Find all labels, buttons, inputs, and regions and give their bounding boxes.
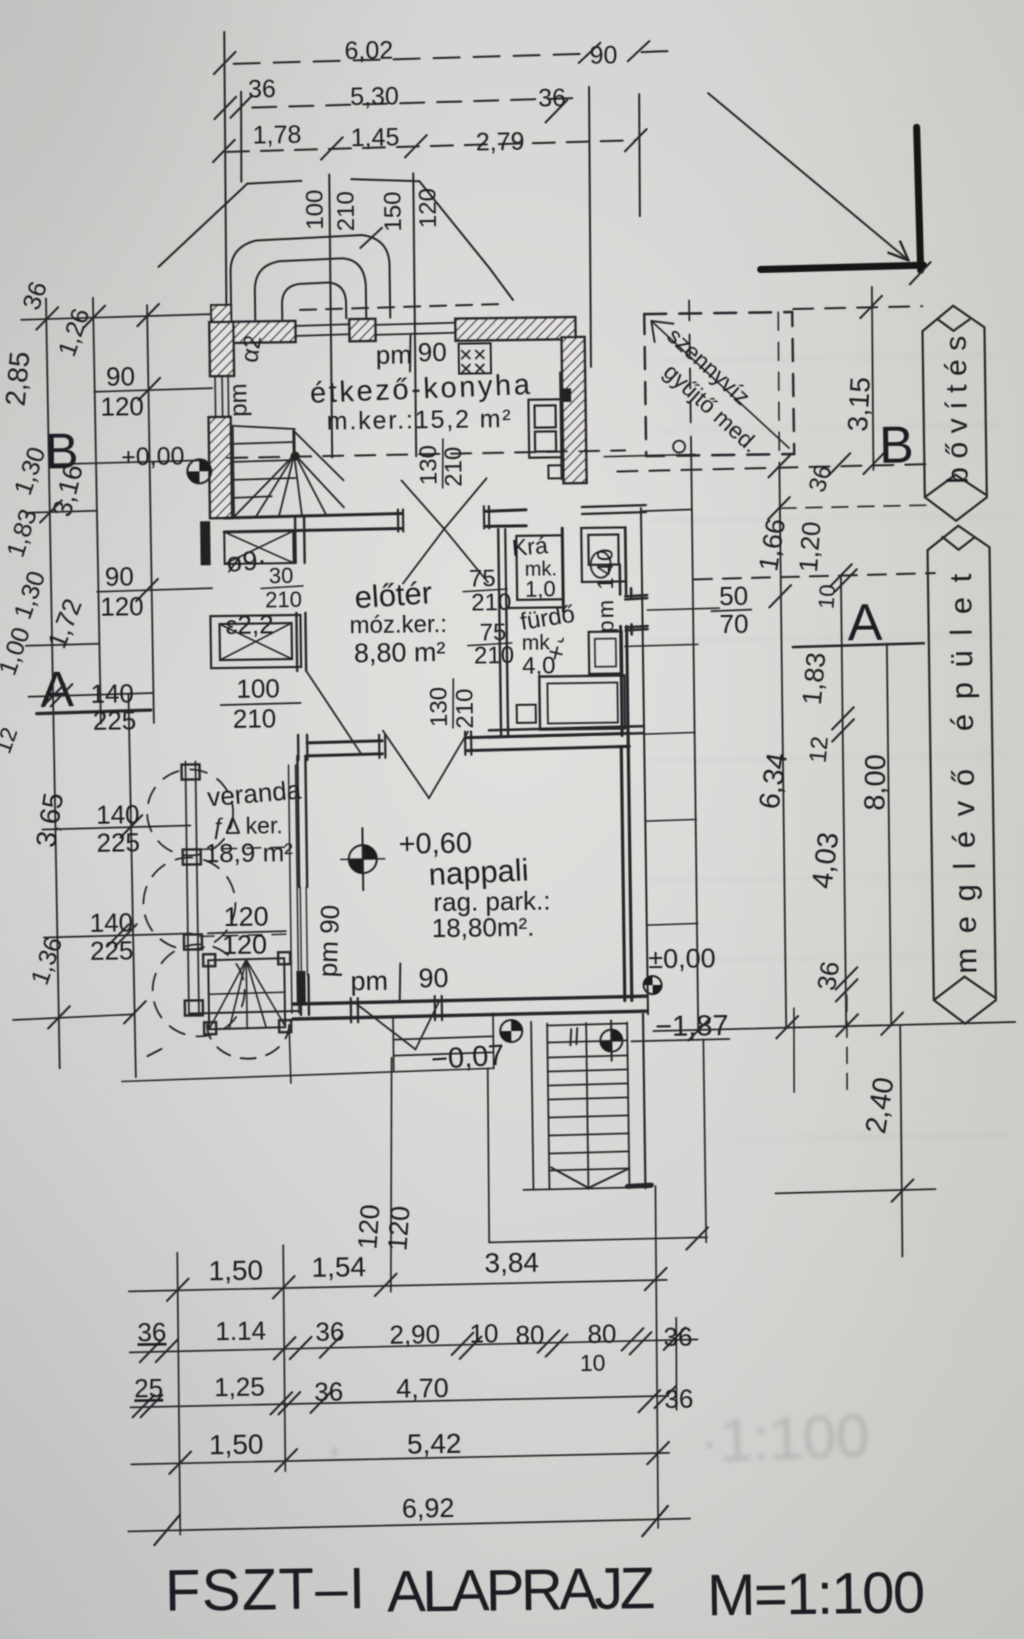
top right corner tick <box>910 262 931 284</box>
veranda-eloter wall lower stub <box>298 735 307 760</box>
svg-text:130: 130 <box>415 445 443 485</box>
bay dashed connector above wall <box>300 304 498 310</box>
veranda bottom edge <box>189 1011 299 1014</box>
wall kitchen east hatched strip <box>562 337 587 483</box>
top dim chain vertical extension line left <box>222 32 228 354</box>
bottom dim vertical x378 <box>388 1058 395 1292</box>
svg-text:α2: α2 <box>236 333 267 364</box>
kitchen-eloter door swing X upper <box>402 478 488 529</box>
section A left underline <box>37 710 151 714</box>
bottom dim vertical x668 <box>675 1318 677 1410</box>
right dim row y1196 tick <box>891 1179 913 1201</box>
svg-text:70: 70 <box>719 609 748 639</box>
terrace steps below nappali <box>393 1013 494 1071</box>
svg-text:1,20: 1,20 <box>793 520 827 573</box>
right dim vertical x783 <box>778 466 787 1027</box>
furdo east wall lower <box>621 626 629 735</box>
house east outer wall <box>641 508 648 1014</box>
kamra closet box <box>505 528 563 612</box>
lower connector horizontal <box>489 1237 707 1242</box>
svg-text:pm: pm <box>225 383 252 417</box>
bay window outer chamfer left diagonal <box>157 184 248 267</box>
top right diagonal arrowhead <box>888 241 908 260</box>
svg-text:1.14: 1.14 <box>215 1315 266 1346</box>
furdo wc box <box>589 631 623 673</box>
wall kitchen north-west corner tab <box>211 305 231 323</box>
below -1,87 connector horizontal <box>631 1039 729 1041</box>
svg-text:90: 90 <box>105 561 134 591</box>
furdo south wall connector to dim line <box>644 732 695 734</box>
left dim vertical v1 <box>46 298 60 1068</box>
top dim row 90 tick left <box>578 43 600 63</box>
bay window outer chamfer right diagonal <box>419 180 513 301</box>
svg-text:36: 36 <box>664 1384 693 1414</box>
svg-text:36: 36 <box>314 1376 343 1406</box>
right dim vertical x695 <box>690 456 699 1029</box>
svg-text:1,83: 1,83 <box>797 651 832 706</box>
svg-text:ALAPRAJZ: ALAPRAJZ <box>387 1556 656 1625</box>
right dim row y580 ticks <box>768 496 858 607</box>
right dim dashed vertical x843 low <box>846 995 848 1091</box>
nappali south door swing V <box>357 1002 440 1050</box>
left dim row y929 <box>44 933 192 937</box>
wall kitchen north-east hatched block <box>455 317 575 341</box>
right dim row y580 dashed <box>694 573 935 579</box>
right dashed row y311 <box>793 306 922 309</box>
svg-text:±0,00: ±0,00 <box>648 943 716 974</box>
svg-text:5,42: 5,42 <box>407 1428 462 1460</box>
right dim row y470 dashed <box>617 464 930 471</box>
kitchen stove box with x marks <box>459 343 491 373</box>
left dim row y384 tick <box>138 378 160 400</box>
svg-text:mk.: mk. <box>525 558 558 580</box>
left dim row y1004 <box>13 1014 134 1020</box>
svg-text:120: 120 <box>100 591 144 622</box>
svg-text:ø9·: ø9· <box>225 545 268 578</box>
svg-text:80: 80 <box>515 1320 544 1350</box>
level marker SE wall <box>643 976 661 994</box>
west wall dark post <box>200 521 211 565</box>
septic small circle <box>673 441 685 453</box>
left dim vertical v2 <box>93 298 101 724</box>
kitchen north window 2 sill lines <box>375 323 455 335</box>
stairs bottom thick end <box>627 1185 651 1186</box>
svg-text:50: 50 <box>719 581 748 611</box>
top dim row 90 tick right <box>627 41 649 61</box>
house east outer wall top connector <box>582 505 646 514</box>
svg-text:‚: ‚ <box>330 1417 339 1461</box>
svg-text:3,15: 3,15 <box>842 376 876 432</box>
winder stair boundary <box>233 425 296 517</box>
veranda outside dashed arc <box>207 1023 289 1059</box>
right dim vertical x888 <box>886 644 892 1026</box>
top dim row 5,30 ticks <box>214 97 236 119</box>
bottom dim row1 ticks <box>167 1268 667 1301</box>
left dim row y311 ticks <box>36 304 159 330</box>
left level marker <box>187 459 211 483</box>
left dim row y456 <box>49 460 205 464</box>
left dim row y384 <box>94 388 212 392</box>
right row y311 tick <box>860 296 882 318</box>
svg-text:1,50: 1,50 <box>208 1255 263 1287</box>
right dim vertical x878 (3,15) <box>871 287 875 470</box>
bay window outer ring <box>230 235 390 320</box>
svg-text:210: 210 <box>451 688 479 728</box>
kitchen flue dark square <box>560 388 571 402</box>
kitchen label pm 90 divider <box>410 335 412 371</box>
svg-text:90: 90 <box>106 361 135 391</box>
top dim row 1,78 ticks <box>213 140 235 162</box>
svg-text:225: 225 <box>93 705 137 736</box>
svg-text:10: 10 <box>580 1350 606 1376</box>
svg-text:A: A <box>40 661 75 717</box>
svg-text:1,25: 1,25 <box>214 1372 265 1403</box>
faint texture lines right side <box>650 355 1010 1140</box>
veranda window arc dashed 1 <box>147 769 234 856</box>
bay dim vertical line 2 <box>412 173 417 456</box>
svg-text:30: 30 <box>269 563 294 588</box>
top right thick corner horizontal <box>761 265 924 269</box>
svg-text:ƒΔ ker.: ƒΔ ker. <box>212 812 283 839</box>
left dim vertical v4 <box>128 693 135 1077</box>
level marker terrace left <box>500 1020 522 1042</box>
eloter-nappali wall east part <box>467 733 629 750</box>
winder stair radiating treads <box>233 430 344 517</box>
right dim vertical x896 (2,40) <box>899 1026 903 1257</box>
left dim row y584 tick <box>136 579 158 601</box>
furdo east door jambs <box>625 588 648 634</box>
left dim row y637 <box>26 644 99 646</box>
top dim chain vertical right 2 <box>638 94 641 216</box>
svg-text:120: 120 <box>352 1203 385 1250</box>
veranda window arc dashed 3 <box>152 944 245 1037</box>
septic tank dashed box <box>644 312 794 456</box>
wall kitchen north-west hatched block <box>211 321 295 343</box>
svg-text:+0,00: +0,00 <box>121 443 185 472</box>
svg-text:10: 10 <box>469 1318 498 1348</box>
top dim row 5,30 line <box>252 98 580 108</box>
svg-text:1,78: 1,78 <box>253 121 302 150</box>
right house-dim connector y512 <box>642 509 692 511</box>
right short connectors y822 y926 <box>646 819 697 925</box>
bottom dim row3 y1399 <box>130 1396 668 1408</box>
top right diagonal arrow <box>708 90 908 263</box>
right dim row y1196 <box>775 1189 935 1193</box>
right dim row y1031 <box>653 1022 1015 1031</box>
right dim vertical x790 low <box>793 1008 795 1092</box>
left dim row y821 tick <box>120 815 142 837</box>
svg-text:120: 120 <box>100 391 144 422</box>
right connector y646 <box>625 644 698 646</box>
bottom dim row1 y1284 <box>129 1280 667 1292</box>
winder stair treads horizontal <box>233 442 296 498</box>
svg-text:36: 36 <box>248 75 276 103</box>
svg-text:M=1:100: M=1:100 <box>707 1560 926 1628</box>
bay dim vertical line 1 <box>328 174 333 457</box>
wall west lower hatched strip <box>209 417 232 518</box>
right dim row y470 ticks <box>768 452 885 478</box>
top dim row 1,78 line <box>227 140 636 152</box>
wall west window sill upper <box>215 376 229 418</box>
svg-text:36: 36 <box>315 1316 344 1346</box>
svg-text:8,80 m²: 8,80 m² <box>354 637 446 668</box>
svg-text:pm: pm <box>350 966 388 997</box>
svg-text:18,9 m²: 18,9 m² <box>205 837 294 868</box>
furdo south wall <box>489 726 644 737</box>
right dim double ticks x843 y730 <box>832 707 854 741</box>
svg-text:1,45: 1,45 <box>351 124 400 153</box>
kitchen door axis divider <box>442 439 444 488</box>
left dim row y311 <box>21 314 211 320</box>
winder stair newel post <box>292 431 295 458</box>
left dim vertical v3 <box>147 305 154 723</box>
top dim chain vertical right 1 <box>587 87 593 367</box>
right dim double ticks x843 y960 <box>835 967 857 1001</box>
bovites arrow box <box>922 305 987 521</box>
svg-text:5,30: 5,30 <box>350 83 399 112</box>
svg-text:225: 225 <box>90 935 134 966</box>
thin connector to septic box <box>604 454 695 456</box>
svg-text:80: 80 <box>587 1319 616 1349</box>
nappali west window gap sills <box>300 887 307 975</box>
svg-text:pm 90: pm 90 <box>312 904 345 977</box>
nappali west wall <box>297 756 307 887</box>
top dim row 36 tick right pair <box>545 100 567 122</box>
top dim row 6,02 line <box>234 51 680 64</box>
veranda south steps fan box <box>208 958 285 1029</box>
eloter closet lower with X <box>210 615 301 668</box>
svg-text:120: 120 <box>382 1205 415 1252</box>
bottom dim row2 y1344 <box>130 1339 698 1352</box>
stairs cut V arrow <box>551 1166 629 1188</box>
bay dim tick on row <box>360 228 382 248</box>
svg-text:·1:100: ·1:100 <box>698 1402 870 1475</box>
meglevo epulet arrow box <box>927 525 996 1024</box>
top dim row 6,02 tick left <box>214 52 236 74</box>
bay window middle ring <box>254 258 366 320</box>
stairs tread tick <box>570 1028 577 1045</box>
bottom dim row4 ticks <box>169 1442 669 1474</box>
svg-text:140: 140 <box>96 799 140 830</box>
septic tank diagonal line <box>651 319 789 450</box>
right dashed row y511 <box>780 505 926 508</box>
bottom dim row5 ticks <box>154 1506 668 1545</box>
veranda west post squares <box>181 764 203 1015</box>
veranda dashed mid lines <box>199 847 290 936</box>
bottom dim row3 ticks <box>132 1386 676 1420</box>
svg-text:FSZT–I: FSZT–I <box>165 1556 366 1624</box>
svg-text:1,54: 1,54 <box>311 1251 366 1283</box>
left dim row y821 <box>42 825 190 829</box>
section A right underline <box>793 643 924 647</box>
furdo bathtub double box <box>539 675 625 729</box>
top right thick corner vertical <box>917 127 921 270</box>
right dim row y1031 ticks <box>688 1013 903 1041</box>
level marker stairs right <box>600 1020 623 1060</box>
right dim vertical x783 upper dashed <box>777 312 780 466</box>
steps-baseline short vertical <box>289 1027 291 1083</box>
svg-text:90: 90 <box>418 963 448 993</box>
bottom dim vertical x648 <box>653 1186 660 1528</box>
wall west upper hatched strip <box>209 322 234 376</box>
veranda-eloter wall upper <box>295 517 305 563</box>
bottom dim row4 y1456 <box>131 1453 669 1465</box>
svg-text:150: 150 <box>379 191 407 231</box>
terrace long baseline y1071 <box>122 1068 494 1081</box>
stairs left boundary <box>531 1022 533 1190</box>
svg-text:225: 225 <box>96 827 140 858</box>
svg-text:130: 130 <box>425 687 453 727</box>
svg-text:100: 100 <box>236 673 280 704</box>
svg-text:2,79: 2,79 <box>476 128 525 157</box>
nappali south door label divider <box>399 964 401 1000</box>
kitchen counter east inner line <box>560 372 561 479</box>
bottom dim vertical x170 <box>176 1253 181 1535</box>
svg-text:140: 140 <box>89 907 133 938</box>
veranda west wall posts <box>185 761 199 1014</box>
svg-text:2,85: 2,85 <box>0 350 35 407</box>
veranda window arc dashed 2 <box>143 857 236 950</box>
svg-text:2,90: 2,90 <box>389 1319 440 1350</box>
left dim row y504 tick <box>40 500 62 522</box>
stairs left rail <box>547 1024 549 1190</box>
furdo washbasin box <box>581 527 626 582</box>
bay window inner ring <box>282 282 346 319</box>
bottom dim row2 ticks <box>139 1328 685 1364</box>
furdo east wall upper <box>619 527 626 594</box>
left dim row y584 <box>97 588 212 592</box>
kitchen dashed section line <box>227 450 625 458</box>
svg-text:90: 90 <box>418 337 447 367</box>
lower connector tick <box>686 1227 708 1249</box>
lower connector vertical from terrace <box>487 1068 490 1242</box>
svg-text:36: 36 <box>811 959 845 992</box>
kitchen fridge double box <box>528 399 562 457</box>
furdo door dim line y611 <box>647 608 719 610</box>
svg-text:140: 140 <box>90 678 134 709</box>
left dim double tick y688 <box>42 684 72 706</box>
svg-text:210: 210 <box>233 703 277 734</box>
svg-text:210: 210 <box>332 191 360 231</box>
left dim row y504 <box>26 511 97 513</box>
svg-text:25: 25 <box>134 1373 163 1403</box>
svg-text:120: 120 <box>414 188 442 228</box>
svg-text:120: 120 <box>222 929 267 960</box>
left dim row y1004 ticks <box>48 1001 146 1028</box>
right dim vertical x695 upper dash <box>689 297 691 456</box>
stairs right boundary <box>643 1014 645 1188</box>
svg-text:90: 90 <box>589 41 617 69</box>
svg-text:Krá: Krá <box>511 532 549 561</box>
svg-text:móz.ker.:: móz.ker.: <box>349 611 447 639</box>
svg-text:B: B <box>879 416 914 474</box>
eloszoba closet upper with X <box>224 531 293 564</box>
svg-text:8,00: 8,00 <box>859 754 892 811</box>
svg-text:4,70: 4,70 <box>396 1373 449 1404</box>
kitchen north window 1 sill lines <box>295 324 349 336</box>
left dim row y929 ticks <box>107 924 137 946</box>
kitchen-eloter wall west part <box>224 514 402 532</box>
wall kitchen north pm post hatched <box>349 319 375 341</box>
kitchen small box right lower <box>548 465 562 478</box>
eloter-nappali wall west part <box>307 741 382 756</box>
stairs bottom line <box>523 1187 650 1190</box>
nappali west wall lower <box>300 975 309 1015</box>
veranda-eloter door swing diagonal <box>306 670 361 755</box>
svg-text:36: 36 <box>137 1317 166 1347</box>
veranda east boundary posts <box>288 765 298 1013</box>
svg-text:10: 10 <box>813 584 840 610</box>
stairs treads <box>547 1023 629 1170</box>
svg-text:6,02: 6,02 <box>344 37 393 66</box>
svg-text:36: 36 <box>663 1322 692 1352</box>
kitchen-eloter wall east part <box>486 510 526 527</box>
furdo small box sw <box>517 705 536 723</box>
stairs right rail <box>627 1022 629 1186</box>
nappali south wall <box>293 996 647 1019</box>
kitchen-eloter door swing X lower <box>402 528 488 583</box>
eloter-nappali door swing V <box>383 730 469 799</box>
svg-text:m.ker.:15,2 m²: m.ker.:15,2 m² <box>327 405 511 436</box>
stairs center rail <box>586 1023 588 1189</box>
nappali west wall jamb dark post <box>296 971 305 1005</box>
svg-text:100: 100 <box>301 189 329 229</box>
svg-text:210: 210 <box>440 447 468 487</box>
nappali east wall inner <box>621 735 632 1000</box>
svg-text:18,80m².: 18,80m². <box>432 912 535 943</box>
nappali south door opening <box>355 1000 439 1002</box>
level marker nappali <box>340 828 385 891</box>
veranda-eloter wall mid <box>296 613 306 671</box>
right dim vertical x843 <box>840 575 847 1026</box>
nappali south door jambs <box>351 996 442 1022</box>
veranda south steps posts <box>203 952 291 1034</box>
eloter-nappali door axis divider <box>452 679 454 728</box>
svg-text:előtér: előtér <box>353 575 433 615</box>
bottom dim row5 y1523 <box>128 1519 690 1532</box>
eloter-nappali door jambs <box>379 732 471 758</box>
svg-text:120: 120 <box>223 901 268 932</box>
svg-text:36: 36 <box>538 84 566 112</box>
svg-text:12: 12 <box>805 735 834 764</box>
below -1,87 connector vertical <box>703 1039 706 1242</box>
septic diagonal arrowhead <box>651 321 673 342</box>
winder stair newel dot <box>291 451 300 460</box>
bottom dim vertical x276 <box>282 1245 286 1471</box>
svg-text:1,50: 1,50 <box>209 1429 264 1461</box>
outside small tick dash <box>147 1049 161 1056</box>
svg-text:pm: pm <box>376 339 413 370</box>
bay window outer chamfer top line <box>247 178 419 183</box>
svg-text:6,92: 6,92 <box>402 1493 455 1524</box>
kitchen-eloter door jambs <box>398 506 489 531</box>
top dim chain secondary vertical left <box>240 92 242 182</box>
left dim row y688 <box>28 693 153 697</box>
furdo west wall <box>498 529 508 737</box>
svg-text:3,84: 3,84 <box>484 1247 539 1279</box>
